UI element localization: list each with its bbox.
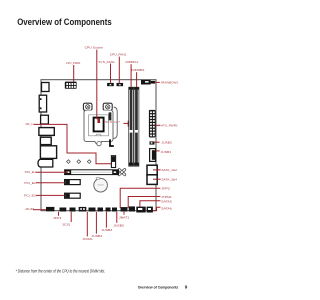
connector SATA_1&2 (147, 165, 157, 175)
label PCI_E2 (24, 181, 36, 185)
connector SYS_FAN1 (107, 83, 114, 86)
svg-text:CPU_PWR1: CPU_PWR1 (66, 61, 81, 65)
connector ATX_PWR1 (149, 110, 156, 138)
wire CPU_FAN1 (118, 57, 120, 83)
wire M2_1 (33, 124, 113, 163)
wire SYS_FAN1 (110, 64, 112, 83)
m.2 standoff holes (67, 160, 91, 164)
wire JCI1 (70, 212, 72, 222)
svg-text:CPU_FAN1: CPU_FAN1 (110, 53, 127, 57)
dimm slot DIMMA1 (129, 87, 134, 166)
bottom connector 3 (70, 208, 76, 212)
connector JUSB2 (150, 141, 155, 144)
wire JRAINBOW1 (155, 81, 160, 83)
wire JBAT1 (123, 212, 125, 215)
footnote (16, 268, 106, 273)
label M2_1 (26, 122, 33, 126)
svg-text:50.8 mm*: 50.8 mm* (105, 120, 121, 124)
wire JCOM1 (86, 212, 88, 237)
label JCOM1 (82, 237, 93, 241)
svg-text:PCI_E2: PCI_E2 (24, 181, 36, 185)
wire JUSB3 (105, 212, 107, 228)
svg-text:9: 9 (185, 284, 188, 289)
label ATX_PWR1 (161, 124, 178, 128)
wire JUSB1 (156, 150, 160, 152)
svg-text:SATA_3&4: SATA_3&4 (161, 177, 177, 181)
io port VGA (41, 115, 49, 124)
label JUSB4 (91, 234, 102, 238)
wire JUSB2 header (116, 212, 118, 223)
label JFP1 (53, 216, 62, 220)
label PCI_E1 (25, 170, 37, 174)
bottom connector 2 (60, 208, 67, 212)
bottom connector 10 (129, 206, 135, 211)
label DIMMA1 (126, 60, 139, 64)
svg-text:DIMMA1: DIMMA1 (126, 60, 139, 64)
label JCI1 (62, 223, 71, 227)
wire SATA6 (153, 207, 161, 210)
wire ATX_PWR1 (156, 124, 161, 126)
svg-text:SYS_FAN1: SYS_FAN1 (98, 60, 115, 64)
wire SATA_1&2 (153, 169, 161, 171)
svg-text:JUSB2: JUSB2 (113, 223, 124, 227)
label SATA6 (161, 206, 172, 210)
bottom connector 4 (79, 207, 87, 212)
svg-text:SATA5: SATA5 (161, 200, 172, 204)
pcie slot PCI_E3 (65, 193, 81, 198)
wire SATA5 (140, 201, 161, 207)
connector CPU_PWR1 (65, 82, 77, 89)
bottom connector SATA6 port (147, 207, 153, 213)
bottom connector 9 (121, 207, 128, 211)
svg-text:JUSB1: JUSB1 (161, 150, 172, 154)
pcie slot PCI_E2 (65, 180, 81, 185)
label 50.8 mm (97, 119, 121, 125)
svg-text:PCI_E1: PCI_E1 (25, 170, 37, 174)
io port PS/2 (42, 83, 50, 92)
label SATA_1&2 (161, 168, 177, 172)
io port USB stack (39, 95, 46, 112)
label JAUD1 (25, 207, 35, 211)
svg-text:CPU Socket: CPU Socket (85, 46, 104, 50)
io port LAN USB block (40, 146, 56, 159)
connector CPU_FAN1 (117, 83, 124, 86)
connector JRAINBOW1 (141, 80, 155, 85)
label JUSB1 (161, 150, 172, 154)
label DIMMB1 (131, 68, 144, 72)
bottom connector 8 (112, 208, 117, 212)
wire SATA_3&4 (153, 178, 161, 180)
svg-text:Overview of Components: Overview of Components (17, 17, 112, 28)
svg-text:JFP1: JFP1 (53, 216, 62, 220)
svg-text:JRAINBOW1: JRAINBOW1 (161, 80, 179, 84)
io port DP (40, 137, 51, 144)
label CPU_FAN1 (110, 53, 127, 57)
bottom connector SATA5 port (136, 207, 145, 213)
label CPU_PWR1 (66, 61, 81, 65)
svg-text:JUSB3: JUSB3 (101, 228, 112, 232)
svg-text:JUSB2: JUSB2 (161, 140, 172, 144)
label PCI_E3 (24, 193, 36, 197)
cpu socket U1 (83, 103, 117, 146)
board outline (41, 80, 156, 211)
svg-text:PCI_E3: PCI_E3 (24, 193, 36, 197)
svg-text:JBAT1: JBAT1 (119, 215, 130, 219)
m.2 screw clip (118, 168, 126, 175)
wire JUSB4 (95, 212, 97, 234)
svg-text:SATA_1&2: SATA_1&2 (161, 168, 177, 172)
io port HDMI (39, 128, 54, 136)
label SYS_FAN1 (98, 60, 115, 64)
label JTPM1 (161, 195, 172, 199)
wire CPU_PWR1 (73, 65, 75, 82)
wire PCI_E2 (36, 182, 65, 184)
dimm slot DIMMB1 (134, 87, 139, 166)
svg-text:M2_1: M2_1 (26, 122, 33, 126)
label SATA_3&4 (161, 177, 177, 181)
bottom connector 7 (106, 208, 111, 212)
svg-text:JCI1: JCI1 (62, 223, 71, 227)
svg-text:ATX_PWR1: ATX_PWR1 (161, 124, 178, 128)
svg-text:JFP2: JFP2 (161, 187, 170, 191)
label JFP2 (161, 187, 170, 191)
label JRAINBOW1 (161, 80, 179, 84)
svg-text:Overview of Components: Overview of Components (138, 285, 179, 289)
title Overview of Components (17, 17, 112, 28)
pcie slot PCI_E1 (65, 170, 119, 175)
label JUSB3 (101, 228, 112, 232)
bottom connector 5 (89, 208, 96, 212)
label CPU Socket (85, 46, 104, 50)
wire JAUD1 (33, 209, 47, 211)
bottom connector JAUD (46, 207, 54, 211)
label JUSB2 header (113, 223, 124, 227)
wire JFP2 (120, 188, 160, 208)
svg-text:* Distance from the center of: * Distance from the center of the CPU to… (16, 268, 106, 273)
wire PCI_E1 (36, 171, 68, 173)
wire DIMMB1 (136, 72, 138, 87)
connector M2_1 socket (111, 156, 115, 168)
battery BAT1 (94, 178, 108, 192)
label JBAT1 (119, 215, 130, 219)
footer page number (185, 284, 188, 289)
label JUSB2 (161, 140, 172, 144)
wire DIMMA1 (130, 64, 132, 87)
connector JUSB1 (150, 149, 156, 162)
wire CPU Socket (96, 50, 98, 120)
connector SATA_3&4 (147, 175, 157, 185)
svg-text:SATA6: SATA6 (161, 206, 172, 210)
svg-text:DIMMB1: DIMMB1 (131, 68, 144, 72)
wire JTPM1 (128, 197, 160, 209)
label SATA5 (161, 200, 172, 204)
svg-text:JUSB4: JUSB4 (91, 234, 102, 238)
wire JFP1 (58, 212, 60, 216)
wire dimension pointer (123, 121, 128, 127)
wire PCI_E3 (36, 194, 65, 196)
svg-text:JTPM1: JTPM1 (161, 195, 172, 199)
wire JUSB2 (155, 141, 160, 143)
footer page title (138, 285, 179, 289)
io port audio (38, 159, 53, 167)
bottom connector 6 (98, 208, 104, 212)
